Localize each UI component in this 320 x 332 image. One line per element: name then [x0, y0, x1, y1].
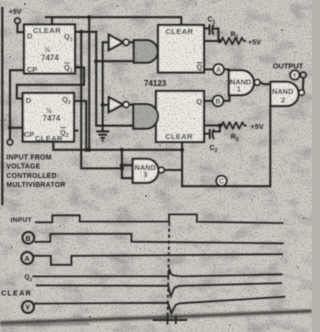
wire NAND3 upper input [122, 164, 133, 166]
wire FF1 CP to input terminal [10, 70, 24, 139]
junction clear rail to clear wire [87, 148, 91, 152]
NAND gate 1 [229, 70, 260, 95]
label INPUT FROM VOLTAGE CONTROLLED MULTIVIBRATOR [6, 154, 65, 189]
node label B (timing) [22, 232, 34, 244]
pin stub Qbar1 [75, 66, 78, 68]
resistor R1 [221, 38, 246, 45]
wire Q2 output down [74, 101, 86, 150]
pin stub Qbar2 [74, 130, 77, 132]
wire C2 to R2 node [214, 126, 220, 132]
wire Q 74123-2 to node B [204, 100, 213, 102]
wire inverter1 output [128, 41, 133, 43]
wire rail B (clear net vertical) [88, 17, 90, 150]
inverter 1 [109, 35, 129, 51]
inverter 2 [109, 97, 129, 112]
flip-flop U1b 7474 [23, 93, 74, 143]
node C [216, 176, 226, 186]
interval marker [153, 316, 188, 325]
wire FF1 top to CLEAR rail [46, 17, 182, 25]
wire C1 to R1 node [214, 29, 219, 41]
junction C1 R1 node [218, 39, 222, 43]
node A [213, 64, 224, 75]
node B [213, 96, 224, 107]
capacitor C2 [210, 129, 214, 139]
wire NAND1 output to NAND2 [260, 82, 271, 84]
wire AND1 lower input [96, 60, 134, 62]
resistor R2 [222, 122, 247, 129]
ground [96, 131, 109, 140]
wire R2 node [204, 124, 222, 126]
junction inverter2 input [101, 103, 105, 107]
NAND gate 2 [271, 82, 305, 106]
junction NAND3 upper input [120, 163, 124, 167]
junction input to FF2 CP [8, 126, 12, 130]
junction clear wire to NAND3 branch [120, 148, 124, 152]
wire inverter2 input [103, 104, 109, 106]
node label A (timing) [21, 252, 33, 264]
wire NAND3 output to 74123 clear [164, 142, 182, 186]
waveform Q2 [32, 269, 282, 277]
one-shot 74123 second half [156, 91, 204, 142]
wire rail A (Q1 to NAND3) [81, 32, 122, 169]
wire inverter1 input [103, 41, 109, 43]
wire Qbar1 to D of FF2 [17, 68, 84, 99]
wire AND2 lower input [96, 125, 133, 127]
bottom page edge [0, 311, 312, 323]
wire node A to NAND1 [224, 69, 229, 71]
one-shot 74123 first half [158, 25, 204, 73]
AND gate 2 [133, 104, 158, 129]
NAND gate 3 [133, 159, 165, 183]
wire Q1 output [75, 31, 96, 33]
wire NAND2 output to output terminal [302, 78, 304, 90]
wire inverter input rail to ground [102, 42, 104, 131]
junction C2 R2 node [218, 123, 222, 127]
waveform INPUT [35, 214, 284, 223]
wire Qbar 74123-1 to node A [204, 68, 213, 70]
left page border [1, 8, 3, 204]
wire rail C (Q1 to AND inputs) [95, 32, 97, 126]
waveform B [34, 234, 284, 244]
junction on Q1 output wire [79, 30, 83, 34]
wire FF2 clear to NAND3 net [53, 142, 182, 150]
junction Q1 rail to AND1 input [94, 59, 98, 63]
AND gate 1 [134, 40, 158, 63]
node label Y (timing) [22, 301, 34, 313]
wire V1 to NAND3 inputs [122, 150, 133, 178]
wire inverter2 output [128, 104, 133, 106]
junction NAND3 input tie [120, 166, 124, 170]
waveform Y [34, 297, 285, 314]
waveform A [33, 254, 283, 265]
waveform CLEAR [36, 283, 282, 296]
junction on clear net top wire [87, 15, 91, 19]
input terminal [7, 140, 12, 145]
junction Q2 rail to clear wire [84, 148, 88, 152]
wire R1 node [204, 40, 221, 42]
node Y output [290, 70, 299, 79]
junction clear wire to 74123-2 clear [180, 148, 184, 152]
output terminal circle [301, 72, 307, 78]
wire +5V to D of FF1 [17, 24, 24, 33]
wire feedback loop bottom [182, 106, 270, 187]
dashed timing line [168, 223, 170, 320]
flip-flop U1a 7474 [24, 25, 75, 75]
wire FF2 CP branch [10, 127, 23, 129]
terminal +5V top left [15, 18, 20, 23]
capacitor C1 [210, 24, 214, 35]
wire C2 stub [204, 133, 209, 135]
wire node B to NAND1 [223, 94, 229, 101]
wire C1 stub [204, 27, 209, 29]
